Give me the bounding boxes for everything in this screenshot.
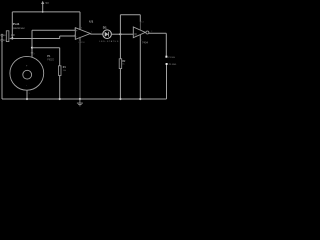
svg-text:PIEZO: PIEZO (47, 60, 54, 62)
piezo P1 outer circle (10, 56, 44, 90)
svg-text:-: - (76, 34, 77, 38)
svg-text:1k: 1k (122, 63, 124, 65)
wire op-amp V+ pin to top rail (79, 12, 81, 30)
resistor R2 (119, 59, 122, 69)
svg-text:1: 1 (91, 32, 92, 34)
resistor R1 (59, 66, 62, 76)
power symbol 5V arrow (41, 1, 44, 13)
wire top 5V rail (12, 11, 80, 13)
svg-text:LM358: LM358 (78, 42, 85, 44)
op-amp U1 triangle (75, 28, 90, 40)
pot terminal circle top (1, 34, 3, 36)
svg-text:potentiometer: potentiometer (13, 27, 25, 30)
wire junction down to R2 (119, 34, 121, 59)
inverter input pin mark (134, 33, 136, 35)
inverter 7404 triangle (133, 27, 145, 38)
svg-text:P2 GND: P2 GND (169, 64, 177, 66)
node R1 ground junction (59, 98, 61, 100)
wire op-amp V- to ground rail (79, 41, 81, 99)
node junction LED net (119, 33, 121, 35)
wire left rail down to ground rail (1, 35, 3, 99)
svg-text:7: 7 (141, 40, 142, 42)
node junction at pot wiper (11, 37, 13, 39)
7404 power pin stub (139, 22, 141, 30)
svg-text:8: 8 (81, 28, 82, 30)
wire junction up and over to 7404 power pin 14 (120, 15, 140, 35)
svg-text:+: + (76, 29, 78, 33)
node junction piezo net (31, 47, 33, 49)
svg-text:U1: U1 (89, 19, 93, 23)
wire op-amp output to LED D1 (90, 33, 103, 35)
node R2 ground junction (119, 98, 121, 100)
connector pin P1 SIG (165, 56, 167, 58)
svg-text:7404: 7404 (142, 40, 148, 44)
node ground junction (79, 98, 81, 100)
LED D1 symbol (105, 32, 109, 37)
op-amp V- pin stub (79, 37, 81, 41)
pot terminal circle bottom (1, 39, 3, 41)
wire junction to R1 top (32, 48, 60, 66)
wire op-amp non-inverting input (32, 30, 75, 47)
svg-text:10K: 10K (11, 34, 16, 37)
wire inverter output to connector (149, 33, 166, 56)
wire junction to inverter input (120, 33, 134, 35)
LED D1 circle (103, 30, 112, 39)
wire LED to junction (111, 33, 120, 35)
pot pin stub top (3, 34, 5, 36)
svg-text:2: 2 (74, 35, 75, 37)
svg-text:10k: 10k (63, 70, 66, 72)
wire R2 bottom to ground rail (119, 69, 121, 99)
svg-text:14: 14 (141, 21, 143, 23)
svg-text:3: 3 (74, 29, 75, 31)
potentiometer Pot1 body (6, 31, 9, 42)
ground symbol (77, 99, 83, 106)
svg-text:D1: D1 (103, 26, 107, 30)
node 7404 ground junction (139, 98, 141, 100)
wire 7404 ground pin 7 to ground rail (139, 35, 141, 99)
svg-text:P1 SIG: P1 SIG (168, 57, 175, 59)
svg-text:LED-STATUS: LED-STATUS (99, 40, 119, 43)
wire junction to piezo pin 2 (31, 48, 33, 57)
piezo inner circle (23, 70, 32, 79)
pot pin stub bottom (3, 39, 5, 41)
wire piezo pin 1 to ground rail (26, 90, 28, 99)
wire connector GND down to ground rail (166, 65, 168, 99)
wire left vertical rail to pot wiper (11, 12, 13, 39)
inverter bubble (146, 31, 149, 34)
wire bottom ground rail (2, 98, 167, 100)
wire pot wiper to op-amp inverting input (12, 36, 75, 39)
node piezo ground junction (26, 98, 28, 100)
potentiometer wiper arrow (9, 38, 12, 40)
svg-text:Pot1: Pot1 (13, 22, 20, 26)
wire R1 bottom to ground rail (59, 76, 61, 100)
svg-text:-: - (26, 84, 27, 87)
svg-text:5V: 5V (46, 1, 50, 5)
connector pin P2 GND (166, 63, 168, 65)
